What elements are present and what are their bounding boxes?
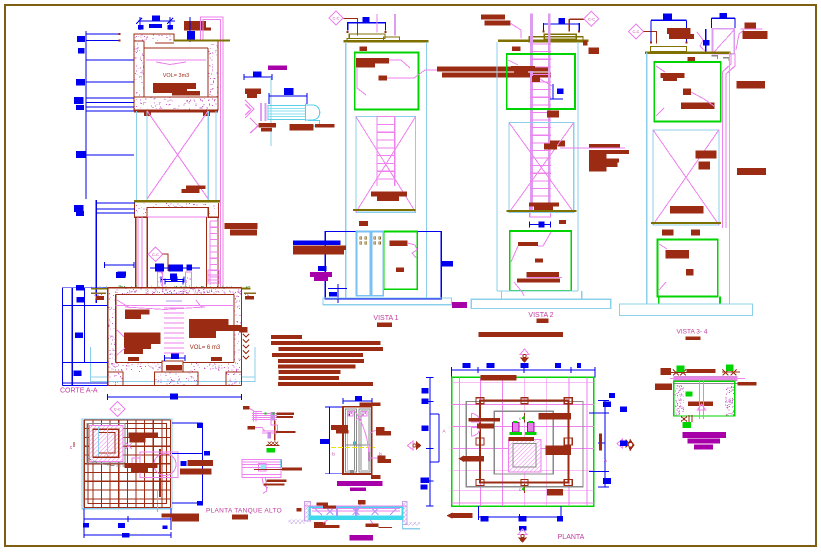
svg-text:C-C: C-C <box>632 29 639 34</box>
svg-text:C-C: C-C <box>152 252 159 257</box>
svg-text:C-C: C-C <box>114 407 121 412</box>
svg-text:VISTA 1: VISTA 1 <box>373 315 398 322</box>
svg-text:C-C: C-C <box>588 16 595 21</box>
svg-text:A: A <box>442 429 445 434</box>
svg-text:C-C: C-C <box>332 16 339 21</box>
svg-text:VOL= 3m3: VOL= 3m3 <box>163 73 189 79</box>
svg-text:VISTA 2: VISTA 2 <box>528 312 553 319</box>
svg-text:VOL= 6 m3: VOL= 6 m3 <box>190 345 221 351</box>
svg-text:PLANTA TANQUE ALTO: PLANTA TANQUE ALTO <box>206 508 282 515</box>
svg-text:CORTE A-A: CORTE A-A <box>60 387 98 394</box>
svg-text:PLANTA: PLANTA <box>558 534 585 541</box>
svg-text:A: A <box>604 458 607 463</box>
svg-text:VISTA 3- 4: VISTA 3- 4 <box>677 328 708 335</box>
